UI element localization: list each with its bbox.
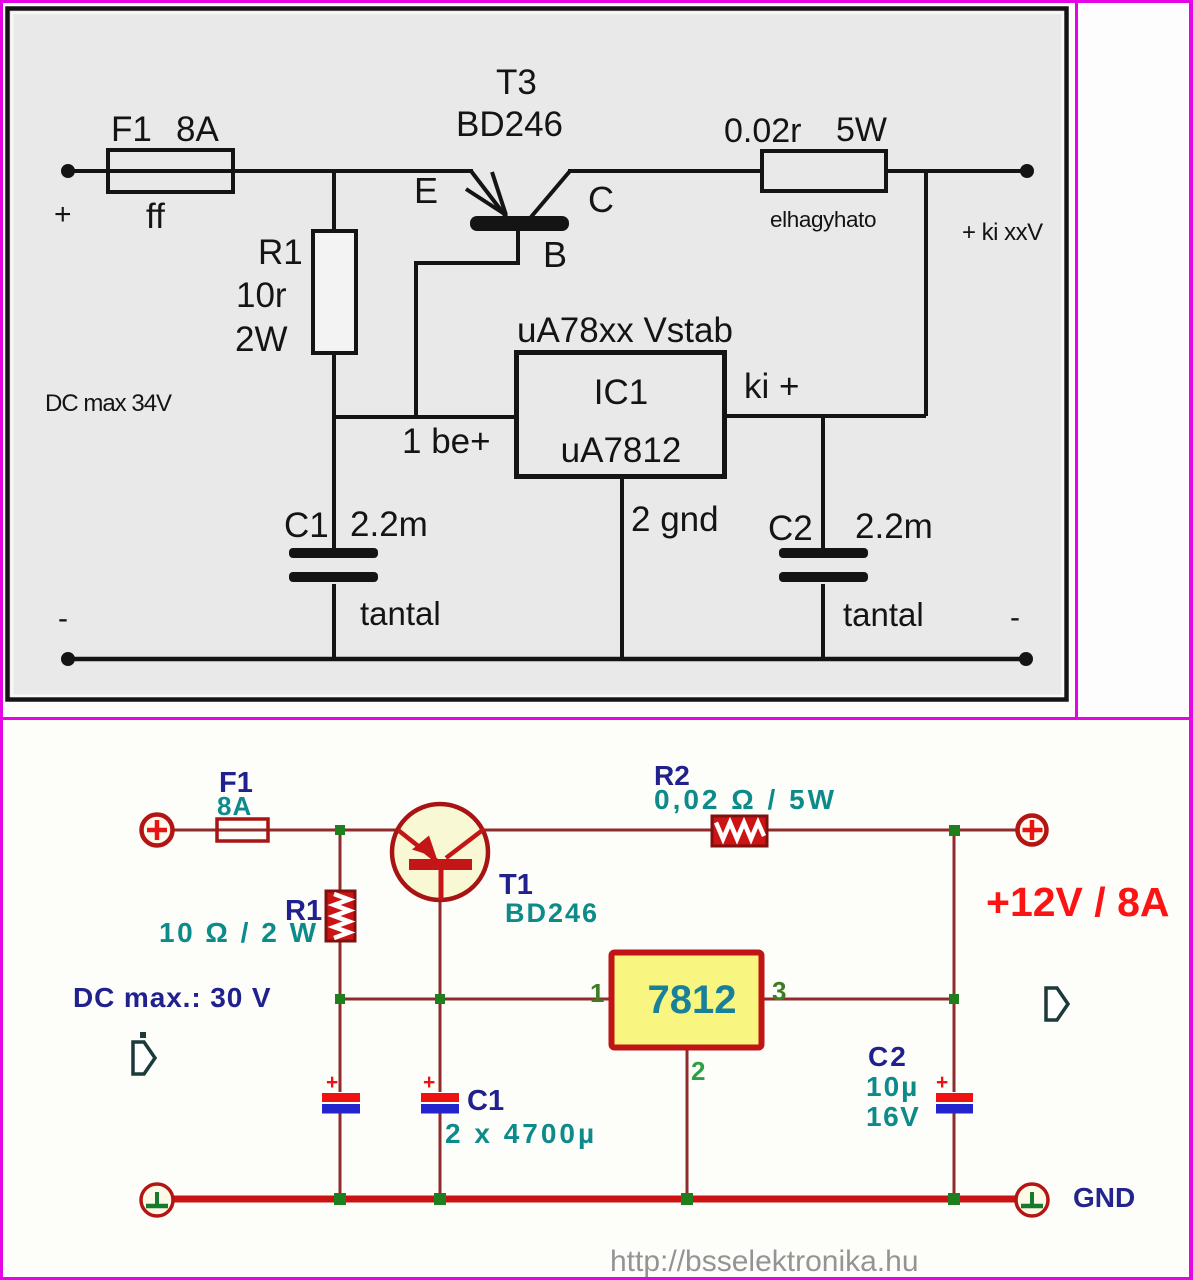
svg-text:R1: R1 — [258, 233, 303, 272]
svg-text:GND: GND — [1073, 1182, 1135, 1213]
svg-text:+: + — [54, 198, 72, 231]
wire: IC1 output — [725, 414, 926, 418]
svg-text:IC1: IC1 — [594, 373, 648, 412]
capacitor C1a — [322, 1071, 360, 1114]
transistor T3 collector — [531, 171, 570, 217]
svg-text:-: - — [58, 602, 68, 635]
terminal + input — [142, 815, 173, 846]
junction gnd rail C1b — [434, 1193, 446, 1205]
node: bottom left dot — [61, 652, 75, 666]
svg-text:BD246: BD246 — [456, 105, 563, 144]
magenta frame: horizontal separator — [0, 717, 1193, 720]
wire: node A down to R1 — [339, 830, 342, 891]
svg-text:C1: C1 — [284, 506, 329, 545]
junction node E — [949, 994, 959, 1004]
wire: 7812 output pin 3 to node E — [762, 998, 954, 1001]
wire: R1 to node C — [339, 941, 342, 999]
capacitor C2 plates — [779, 548, 868, 582]
junction node C — [335, 994, 345, 1004]
wire: R2 to output dot — [886, 169, 1027, 173]
svg-text:2 gnd: 2 gnd — [631, 500, 719, 539]
svg-text:+12V / 8A: +12V / 8A — [986, 879, 1169, 925]
svg-text:+ ki xxV: + ki xxV — [962, 219, 1043, 246]
wire: + terminal through fuse to node A — [172, 829, 340, 832]
ground rail — [172, 1196, 1016, 1203]
terminal GND right — [1016, 1184, 1048, 1216]
svg-text:B: B — [543, 234, 567, 275]
node: bottom right dot — [1019, 652, 1033, 666]
svg-text:0,02 Ω / 5W: 0,02 Ω / 5W — [654, 784, 837, 815]
svg-text:F1: F1 — [111, 110, 152, 149]
junction gnd rail pin2 — [681, 1193, 693, 1205]
capacitor C1b — [421, 1071, 459, 1114]
svg-text:C2: C2 — [868, 1041, 908, 1072]
svg-text:elhagyhato: elhagyhato — [770, 207, 876, 232]
wire: bottom rail — [68, 657, 1026, 662]
svg-text:2 x 4700µ: 2 x 4700µ — [445, 1118, 597, 1149]
svg-text:10 Ω / 2 W: 10 Ω / 2 W — [159, 917, 319, 948]
svg-text:2.2m: 2.2m — [855, 507, 933, 546]
fuse F1 — [108, 150, 233, 192]
arrow icon left — [133, 1032, 155, 1074]
svg-text:5W: 5W — [836, 111, 887, 149]
wire: C2 drop from output wire — [821, 416, 825, 548]
terminal GND left — [141, 1184, 173, 1216]
wire: 7812 gnd pin 2 down to ground rail — [686, 1047, 689, 1199]
magenta frame: bottom edge — [0, 1277, 1193, 1280]
svg-text:-: - — [1010, 601, 1020, 634]
svg-text:C2: C2 — [768, 509, 813, 548]
wire: node to IC1 input — [334, 415, 516, 419]
svg-text:1: 1 — [590, 978, 604, 1008]
svg-text:ff: ff — [146, 197, 165, 236]
wire: R2 to node B — [767, 829, 954, 832]
svg-text:DC max 34V: DC max 34V — [45, 390, 172, 417]
wire: node D down through C1b to ground rail — [439, 999, 442, 1092]
resistor R1 — [313, 171, 356, 659]
svg-text:C1: C1 — [467, 1085, 504, 1117]
transistor T3 base bar — [470, 216, 569, 231]
terminal + output — [1018, 816, 1047, 845]
junction node D — [435, 994, 445, 1004]
node: input terminal dot — [61, 164, 75, 178]
wire: node B down through C2 to ground rail — [953, 830, 956, 1092]
svg-text:+: + — [936, 1071, 948, 1094]
fuse F1 (bottom) — [217, 819, 268, 841]
arrow icon right — [1046, 988, 1068, 1020]
svg-text:T1: T1 — [499, 869, 533, 901]
wire: R2 right down to output node — [924, 171, 928, 416]
svg-text:8A: 8A — [176, 110, 219, 149]
svg-text:3: 3 — [772, 976, 786, 1006]
junction gnd rail C1a — [334, 1193, 346, 1205]
wire: input to emitter — [68, 169, 473, 173]
junction node A — [335, 825, 345, 835]
svg-text:10r: 10r — [236, 276, 287, 315]
wire: node B to + output terminal — [954, 829, 1018, 832]
svg-text:E: E — [414, 170, 438, 211]
svg-text:http://bsselektronika.hu: http://bsselektronika.hu — [610, 1245, 919, 1278]
magenta frame: left edge — [0, 0, 3, 1280]
svg-text:C: C — [588, 179, 614, 220]
svg-text:0.02r: 0.02r — [724, 112, 802, 150]
svg-text:uA78xx Vstab: uA78xx Vstab — [517, 311, 733, 350]
transistor T3 emitter — [466, 171, 507, 218]
wire: node C down through C1a to ground rail — [339, 999, 342, 1092]
svg-text:BD246: BD246 — [505, 898, 599, 928]
junction gnd rail C2 — [948, 1193, 960, 1205]
white gap right of top panel — [1078, 3, 1189, 717]
svg-text:DC max.: 30 V: DC max.: 30 V — [73, 982, 271, 1013]
svg-text:tantal: tantal — [843, 596, 924, 633]
wire: transistor collector to R2 — [484, 829, 712, 832]
junction node B — [949, 825, 960, 836]
top schematic panel (gray with black border) — [8, 9, 1067, 700]
wire: transistor base stem down to node D — [439, 899, 442, 999]
wire: node A to transistor emitter — [340, 829, 396, 832]
svg-text:ki +: ki + — [744, 367, 799, 406]
svg-text:7812: 7812 — [648, 978, 737, 1022]
capacitor C1 plates — [289, 548, 378, 582]
wire: IC1 gnd pin 2 — [620, 477, 624, 659]
magenta frame: top edge — [0, 0, 1193, 3]
svg-text:tantal: tantal — [360, 595, 441, 632]
svg-text:uA7812: uA7812 — [561, 431, 682, 470]
svg-text:+: + — [326, 1071, 338, 1094]
7812 regulator box — [612, 953, 762, 1048]
magenta frame: right edge — [1189, 0, 1193, 1280]
wire: base to input of IC1 — [416, 231, 518, 417]
resistor R2 (bottom) — [712, 816, 767, 846]
svg-text:1 be+: 1 be+ — [402, 422, 491, 461]
svg-text:2: 2 — [691, 1056, 705, 1086]
svg-text:8A: 8A — [217, 791, 252, 821]
svg-text:T3: T3 — [496, 63, 537, 102]
svg-text:2W: 2W — [235, 320, 288, 359]
wire: collector to R2 — [568, 169, 762, 173]
magenta frame: divider right of top panel — [1075, 0, 1078, 719]
node: output terminal dot — [1020, 164, 1034, 178]
IC1 box — [517, 353, 725, 477]
resistor R2 — [762, 151, 886, 191]
transistor T1 — [392, 804, 488, 900]
capacitor C2 (bottom) — [936, 1071, 973, 1114]
wire: node C to 7812 input pin 1 — [340, 998, 611, 1001]
svg-text:2.2m: 2.2m — [350, 505, 428, 544]
svg-text:16V: 16V — [866, 1101, 920, 1132]
svg-text:10µ: 10µ — [866, 1071, 919, 1102]
resistor R1 (bottom) — [326, 891, 355, 941]
svg-text:+: + — [423, 1071, 435, 1094]
